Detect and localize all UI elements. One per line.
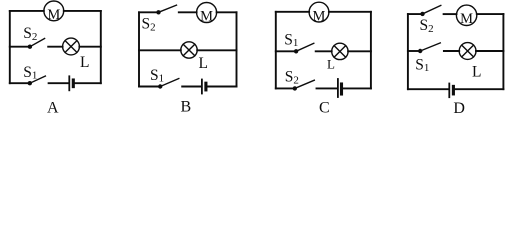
wire: B left vertical	[138, 12, 140, 86]
lamp L (B)	[181, 42, 197, 58]
motor M (B)	[197, 3, 217, 25]
wire: A bottom rail right of battery	[75, 82, 101, 84]
label A	[47, 99, 59, 116]
svg-text:C: C	[319, 99, 330, 116]
wire: A right vertical	[100, 11, 102, 83]
wire: A top rail left of motor	[10, 10, 44, 12]
switch S2 (D)	[420, 5, 441, 16]
wire: B top rail between switch and motor	[179, 11, 197, 13]
lamp L (A)	[63, 38, 80, 55]
wire: D right vertical	[502, 14, 504, 89]
svg-text:D: D	[453, 100, 465, 117]
lamp L (D)	[459, 43, 476, 60]
wire: D top rail left segment	[408, 13, 423, 15]
wire: D middle rail right of lamp	[476, 50, 503, 52]
label S1 (B)	[150, 67, 164, 85]
wire: C right vertical	[370, 12, 372, 89]
svg-text:B: B	[180, 98, 191, 115]
svg-text:L: L	[199, 55, 208, 72]
wire: A bottom rail between switch and battery	[49, 82, 69, 84]
svg-text:S1: S1	[284, 32, 298, 50]
wire: D middle rail left segment	[408, 50, 420, 52]
wire: C top rail right of motor	[329, 11, 371, 13]
switch S2 (C)	[293, 80, 315, 90]
wire: D middle rail between switch and lamp	[444, 50, 459, 52]
motor M (A)	[44, 1, 64, 23]
label S2 (B)	[142, 15, 156, 33]
wire: A top rail right of motor	[64, 10, 101, 12]
wire: C top rail left of motor	[276, 11, 309, 13]
svg-text:S1: S1	[150, 67, 164, 85]
switch S2 (B)	[156, 5, 176, 14]
svg-text:L: L	[327, 57, 335, 72]
motor M (D)	[456, 5, 476, 27]
wire: B top rail left segment	[139, 11, 159, 13]
wire: C bottom rail left segment	[276, 87, 295, 89]
wire: B bottom rail left segment	[139, 86, 160, 88]
svg-text:M: M	[460, 11, 473, 27]
label S1 (D)	[415, 57, 429, 75]
label L (A)	[80, 54, 89, 71]
switch S1 (C)	[294, 43, 314, 53]
wire: D left vertical	[407, 14, 409, 89]
svg-text:L: L	[80, 54, 89, 71]
label L (C)	[327, 57, 335, 72]
lamp L (C)	[332, 43, 348, 59]
switch S1 (D)	[418, 43, 440, 53]
wire: A left vertical	[9, 11, 11, 83]
switch S1 (B)	[158, 79, 179, 89]
wire: B bottom rail right of battery	[208, 86, 237, 88]
label L (B)	[199, 55, 208, 72]
svg-text:A: A	[47, 99, 59, 116]
wire: D top rail between switch and motor	[444, 13, 457, 15]
label S2 (A)	[23, 25, 37, 43]
label S2 (C)	[285, 68, 299, 86]
wire: B bottom rail between switch and battery	[182, 86, 201, 88]
label S1 (A)	[23, 64, 37, 82]
svg-text:S1: S1	[23, 64, 37, 82]
wire: A middle rail left segment	[10, 46, 30, 48]
svg-text:S2: S2	[420, 17, 434, 35]
battery (A)	[69, 76, 73, 90]
label L (D)	[472, 63, 481, 80]
wire: A middle rail right of lamp	[79, 46, 100, 48]
wire: C bottom rail between switch and battery	[317, 87, 338, 89]
wire: C middle rail right of lamp	[348, 50, 371, 52]
svg-text:M: M	[313, 8, 326, 24]
label D	[453, 100, 465, 117]
wire: B middle rail right of lamp	[197, 49, 236, 51]
label S1 (C)	[284, 32, 298, 50]
svg-text:S2: S2	[23, 25, 37, 43]
svg-text:L: L	[472, 63, 481, 80]
label B	[180, 98, 191, 115]
label C	[319, 99, 330, 116]
motor M (C)	[309, 2, 329, 24]
battery (B)	[202, 80, 206, 94]
svg-text:M: M	[200, 9, 213, 25]
svg-text:S2: S2	[142, 15, 156, 33]
wire: A middle rail between switch and lamp	[48, 46, 62, 48]
switch S1 (A)	[28, 76, 46, 85]
svg-text:S1: S1	[415, 57, 429, 75]
wire: B top rail right of motor	[217, 11, 237, 13]
wire: D top rail right of motor	[477, 13, 504, 15]
wire: B right vertical	[236, 12, 238, 86]
wire: B middle rail left of lamp	[139, 49, 181, 51]
svg-text:S2: S2	[285, 68, 299, 86]
svg-text:M: M	[47, 7, 60, 23]
label S2 (D)	[420, 17, 434, 35]
wire: C bottom rail right of battery	[343, 87, 371, 89]
battery (C)	[338, 79, 342, 97]
wire: C middle rail between switch and lamp	[316, 50, 332, 52]
wire: C middle rail left segment	[276, 50, 296, 52]
wire: D bottom rail left of battery	[408, 88, 449, 90]
wire: C left vertical	[275, 12, 277, 89]
wire: D bottom rail right of battery	[455, 88, 503, 90]
battery (D)	[449, 84, 453, 98]
switch S2 (A)	[28, 39, 45, 49]
wire: A bottom rail left segment	[10, 82, 30, 84]
